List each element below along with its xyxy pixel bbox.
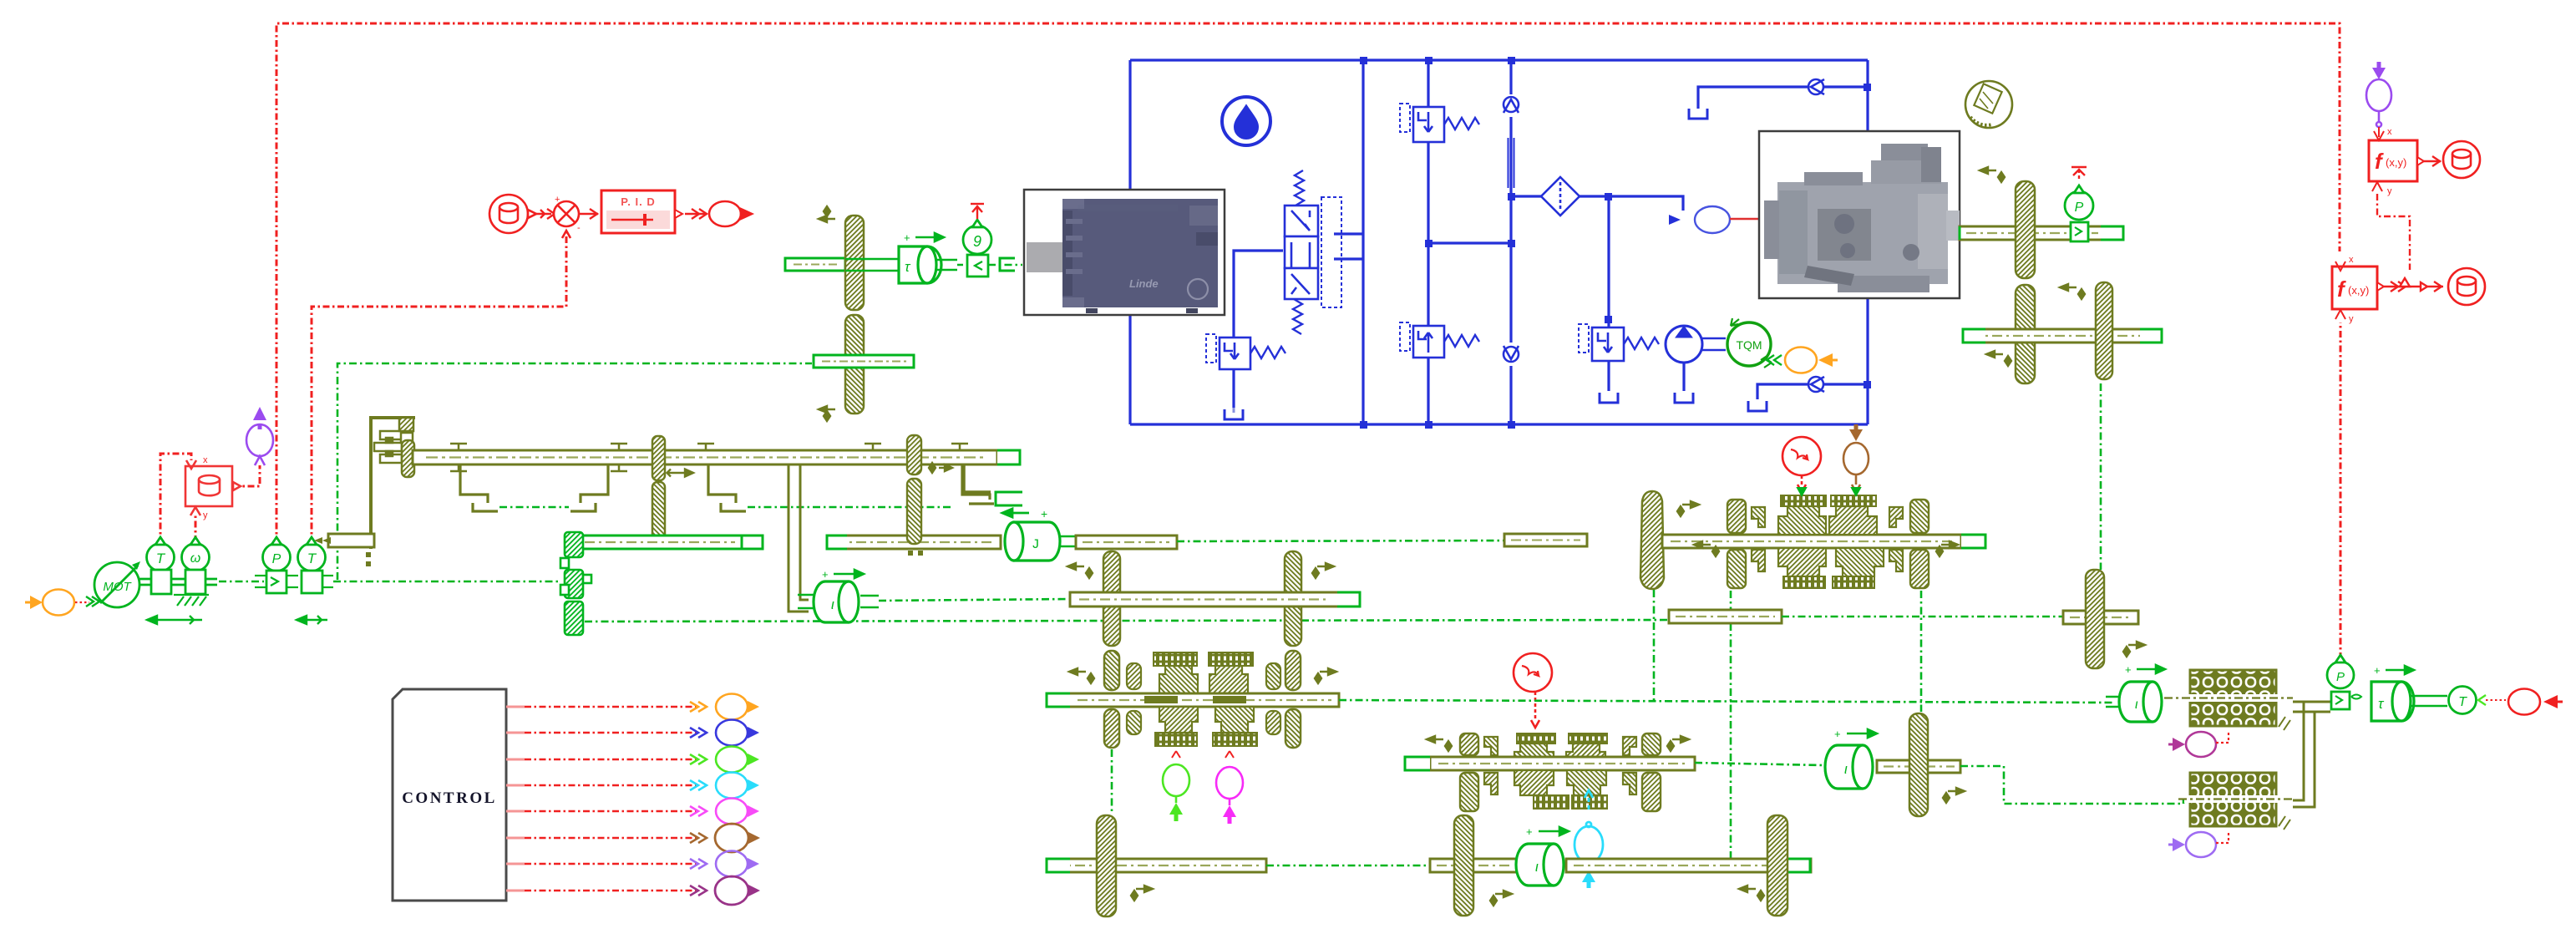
side hub left <box>1127 663 1141 689</box>
input drag gear on shaft <box>402 440 414 477</box>
wire: sensor shaft line to gearbox clutch pack <box>333 581 558 583</box>
B drum upper left <box>1778 506 1826 535</box>
shaft: planetary A main <box>1047 693 1339 707</box>
wire: control output 6 <box>506 833 707 843</box>
pressure sensor PR1 <box>2065 185 2093 241</box>
pipe: check column <box>1509 60 1512 94</box>
tank under CP1 <box>1675 393 1693 403</box>
relief valve RV2 top <box>1400 104 1479 142</box>
B outer gear upper-right <box>1910 500 1929 533</box>
wire: control output 5 <box>506 806 707 816</box>
svg-text:TQM: TQM <box>1736 338 1762 352</box>
check valve CV2 <box>1504 346 1519 362</box>
C drum upper left <box>1514 744 1554 767</box>
command oval dark magenta <box>2168 730 2229 757</box>
torque sensor block T1 <box>147 537 175 594</box>
shaft: free segment <box>1504 534 1587 546</box>
svg-text:T: T <box>307 551 317 566</box>
svg-text:ι: ι <box>1844 761 1848 777</box>
wire: B lower-left gear down-link <box>1730 591 1732 859</box>
command oval violet <box>2168 830 2229 857</box>
svg-text:+: + <box>1526 825 1533 838</box>
svg-text:(x,y): (x,y) <box>2386 156 2406 169</box>
C hub upper-right <box>1623 737 1636 755</box>
swash servo blue oval <box>1669 206 1730 233</box>
directional control valve DV1 <box>1285 170 1341 334</box>
pipe: pump drain <box>1682 363 1685 391</box>
B drum lower left <box>1778 548 1826 576</box>
wire: omega sensor to xy-store y input <box>195 515 197 542</box>
C outer gear lower-right <box>1642 773 1661 811</box>
svg-text:ω: ω <box>190 551 200 566</box>
B hub upper-right <box>1889 507 1903 527</box>
gear G-box lower <box>652 482 665 544</box>
check valve CV1 <box>1504 97 1519 113</box>
synchronizer pack detail <box>374 418 413 463</box>
output stub shaft of gearbox <box>314 534 374 547</box>
gear A-left low <box>1104 709 1119 748</box>
port oval P8 dark magenta <box>715 876 760 905</box>
sun/ring drum upper right <box>1209 666 1248 694</box>
prime mover MOT <box>94 561 140 607</box>
port oval P3 green <box>716 747 759 773</box>
arrows above I2 <box>1526 825 1569 838</box>
pressure sensor block P2L <box>255 537 298 593</box>
svg-text:P: P <box>272 552 281 566</box>
B combs top <box>1781 495 1826 506</box>
wire: PID to output tag <box>685 209 707 219</box>
mesh sparkle upper <box>819 206 835 222</box>
tau coupler TC1 <box>845 246 957 283</box>
gearbox main shaft <box>413 450 1020 464</box>
pipe: valve tap upper <box>1334 232 1363 235</box>
coupler links <box>2293 702 2330 807</box>
data store D1 (circle-cylinder) <box>489 195 536 233</box>
wire: sum to PID <box>579 209 598 219</box>
data store D3 <box>2443 141 2480 178</box>
pipe: boost relief drain <box>1232 369 1235 408</box>
C outer gear upper-left <box>1460 733 1478 755</box>
relief valve RV4 charge <box>1579 324 1659 361</box>
svg-text:ι: ι <box>831 596 834 612</box>
C hub lower-left <box>1484 773 1498 794</box>
wire: I1 output to range gear shaft <box>879 599 1072 601</box>
B hub lower-right <box>1889 550 1903 571</box>
control supervisor box <box>393 689 506 901</box>
oil drop icon <box>1222 97 1270 145</box>
orange tag oval near TQM <box>1785 348 1838 373</box>
dog clutch pair 1 <box>460 465 608 511</box>
tyre-damper block TD1 <box>2164 670 2293 730</box>
shaft: axle right <box>1566 859 1811 872</box>
svg-text:ι: ι <box>1535 859 1539 875</box>
wire: cone gear down-link <box>1653 590 1656 702</box>
gear axle2 <box>2086 570 2104 668</box>
gear R1 upper <box>2016 181 2035 278</box>
B hub upper-left <box>1752 507 1765 527</box>
wire: TQM to orange tag <box>1767 355 1782 365</box>
port oval P4 cyan <box>716 773 759 799</box>
svg-text:-: - <box>577 223 581 233</box>
charge pump CP1 <box>1666 326 1726 363</box>
gearbox housing bracket <box>371 418 415 549</box>
arrows above TAU2 <box>2374 664 2414 677</box>
shaft: bottom left axle <box>1047 859 1266 872</box>
svg-text:J: J <box>1032 537 1040 552</box>
wire: red stub servo to pump <box>1730 218 1760 221</box>
pipe: right border <box>1866 60 1869 131</box>
C drum upper right <box>1566 744 1605 767</box>
gear A-right mid <box>1285 651 1301 690</box>
torque meter TQM <box>1727 318 1772 368</box>
relief valve RV3 lower <box>1400 322 1479 358</box>
rock/soil icon <box>1965 81 2012 128</box>
mesh sparkle lower <box>819 406 835 421</box>
port oval P5 magenta <box>716 799 759 825</box>
gear A-right upper <box>1285 551 1301 646</box>
shaft: range input upper <box>1070 592 1360 607</box>
data store D4 <box>2448 268 2485 305</box>
wire: control output 4 <box>506 780 707 790</box>
svg-text:+: + <box>1041 507 1047 520</box>
wire: q sensor to Linde motor shaft <box>957 258 1022 271</box>
shaft: gearbox out to J <box>827 535 1001 549</box>
B outer gear lower-right <box>1910 550 1929 588</box>
junction dots <box>1360 57 1871 429</box>
ratio unit I2 <box>1516 844 1564 886</box>
pipe: relief column left top <box>1427 60 1429 107</box>
C outer gear upper-right <box>1642 733 1661 755</box>
svg-text:x: x <box>203 455 208 465</box>
carrier combs bottom <box>1155 733 1197 746</box>
cone gear <box>1640 491 1664 589</box>
gear T-upper <box>845 216 864 310</box>
purple oval source V1 <box>246 407 273 465</box>
tyre-damper block TD2 <box>2178 773 2293 830</box>
source oval orange engine command <box>25 590 74 616</box>
svg-text:+: + <box>2125 663 2132 676</box>
gear A-right low <box>1285 709 1301 748</box>
pipe: top right tank line <box>1698 87 1808 109</box>
mesh sparkles planetary A <box>1067 563 1093 578</box>
arrows above I4 <box>2125 663 2165 676</box>
shaft: axle2 right <box>2063 611 2138 624</box>
pinion gear on J shaft <box>907 435 921 475</box>
f(x,y) block F2 <box>2332 255 2384 324</box>
purple oval source V2 top right <box>2366 62 2391 127</box>
boost relief valve RV1 <box>1206 334 1285 369</box>
svg-text:x: x <box>2349 255 2354 265</box>
load tag red oval <box>2508 689 2563 715</box>
wire: D1 to sum <box>536 209 555 219</box>
svg-text:Linde: Linde <box>1129 277 1159 290</box>
C hub lower-right <box>1623 773 1636 794</box>
svg-text:ι: ι <box>2135 698 2138 712</box>
pipe: bottom right tank line <box>1757 384 1808 399</box>
shaft: under planetary B <box>1669 610 1782 623</box>
displacement arrows under shaft <box>147 616 327 624</box>
wire: control output 7 <box>506 859 707 869</box>
tank top right <box>1689 109 1707 119</box>
wire: load tag to TS2 <box>2478 695 2506 705</box>
wire: feedback from T sensor to sum junction <box>312 229 566 544</box>
port oval P2 blue <box>716 720 759 746</box>
pipe: valve left port to boost relief <box>1234 251 1283 338</box>
wire: axle2 link <box>1782 616 2082 618</box>
shaft: transfer <box>1877 760 1960 773</box>
B hub lower-left <box>1752 550 1765 571</box>
shaft: planetary C main <box>1405 757 1695 770</box>
wire: brown oval feed from bottom header <box>1855 424 1858 429</box>
svg-text:+: + <box>2374 664 2381 677</box>
wheel gear bottom-right <box>1767 815 1787 916</box>
svg-text:CONTROL: CONTROL <box>402 789 497 807</box>
gear A-left upper <box>1103 551 1120 646</box>
gear R2 <box>2096 282 2112 379</box>
pipe: filter branch <box>1511 195 1542 197</box>
svg-text:+: + <box>1834 728 1841 740</box>
wire: F2 y-feed riser to F1 <box>2377 194 2410 270</box>
svg-text:x: x <box>2387 127 2392 137</box>
clutch command green oval <box>1163 751 1189 821</box>
torque sensor TS2 <box>2449 687 2477 714</box>
port oval P1 orange <box>716 694 759 720</box>
input shaft to tau <box>785 258 845 271</box>
shift arrows pair1 <box>667 469 694 477</box>
svg-text:T: T <box>156 551 166 566</box>
sun/ring drum lower left <box>1159 707 1198 733</box>
planet carrier combs top <box>1154 652 1197 666</box>
sun/ring drum upper left <box>1159 666 1198 694</box>
shaft: planetary B main <box>1662 535 1985 548</box>
B combs bottom <box>1783 576 1825 588</box>
tank under RV4 <box>1600 393 1618 403</box>
speed source red sine <box>1782 437 1821 492</box>
torque meter sensor q <box>963 220 991 277</box>
wire: clutch link 2 <box>748 506 952 508</box>
ratio unit I3 <box>1825 745 1873 789</box>
ramp source brown oval <box>1843 424 1869 492</box>
svg-text:P: P <box>2336 670 2345 684</box>
wire: V2 to F1 x input <box>2378 127 2380 131</box>
tank under RV1 <box>1225 408 1243 419</box>
wire: control output 2 <box>506 728 707 738</box>
shaft: lower right train <box>1963 329 2162 343</box>
bearing 2 <box>611 444 627 471</box>
wire: top long signal loop from P sensor left to f(x,y) right <box>276 23 2340 544</box>
C hub upper-left <box>1484 737 1498 755</box>
pipe: valve tap lower <box>1334 257 1363 260</box>
ratio unit I4 <box>2106 682 2162 722</box>
wire: green riser and engine speed line to input gear <box>337 363 812 580</box>
pipe: charge branch to blue oval <box>1609 196 1683 211</box>
svg-text:y: y <box>2387 186 2392 196</box>
wire: transfer to rear damper 2 <box>1960 766 2190 804</box>
tank bottom right <box>1748 401 1767 411</box>
clutch command magenta oval <box>1216 751 1243 824</box>
gear A-left mid <box>1104 651 1119 690</box>
port oval P7 violet <box>716 851 759 877</box>
lower gearbox shaft (bright) <box>573 535 763 549</box>
gear T-lower <box>845 315 864 414</box>
wire: control output 3 <box>506 754 707 764</box>
side hub lower left <box>1127 711 1141 734</box>
arrows above TC1 <box>904 231 944 244</box>
synchro actuator stack (bright green) <box>560 532 591 635</box>
shaft: axle mid <box>1430 859 1517 872</box>
wire: axle link <box>1266 865 1430 867</box>
C combs top <box>1517 733 1555 744</box>
dog clutch pair 2 <box>708 465 994 511</box>
f(x,y) block F1 <box>2369 127 2424 196</box>
B drum lower right <box>1836 548 1884 576</box>
svg-text:9: 9 <box>973 233 981 250</box>
check valve CV3 <box>1808 79 1824 94</box>
sum junction S1 <box>554 195 581 238</box>
pipe: relief3 drain <box>1607 361 1610 391</box>
pipe: left border <box>1128 60 1131 200</box>
inertia J1 <box>1005 522 1076 561</box>
wheel gear mid-left <box>1454 815 1473 916</box>
wire: clutch link 1 <box>499 506 569 508</box>
lower input stub shaft <box>814 355 914 368</box>
wire: F1 output to data store D3 <box>2424 156 2441 166</box>
gear G-box upper <box>652 436 665 480</box>
wire: C shaft to transfer ratio <box>1695 763 1824 765</box>
pipe: bottom header <box>1130 423 1868 425</box>
C drum lower right <box>1567 770 1606 795</box>
output tag oval O1 <box>709 201 752 226</box>
svg-text:(x,y): (x,y) <box>2348 284 2369 297</box>
wire: orange oval to MOT <box>75 596 99 607</box>
pressure sensor PR2 <box>2327 655 2361 709</box>
C drum lower left <box>1514 770 1554 795</box>
bracket: shaft end flange <box>964 465 991 492</box>
shaft: pump out <box>1960 226 2123 240</box>
speed source red sine 2 <box>1514 653 1552 728</box>
red setting flag above q <box>971 204 984 219</box>
arrows above J1 <box>1002 507 1047 520</box>
wire: right P sensor up to f2 y input <box>2340 322 2342 659</box>
svg-text:+: + <box>904 231 910 244</box>
ratio unit I1 (iota cylinder) <box>798 581 879 622</box>
wire: A left gear to bottom gear <box>1111 749 1113 814</box>
svg-text:+: + <box>822 568 829 581</box>
sun/ring drum lower right <box>1215 707 1254 733</box>
pipe: cross link <box>1428 241 1511 244</box>
bearing 4 <box>865 444 881 450</box>
svg-text:y: y <box>2349 314 2354 324</box>
arrows above I1 <box>822 568 864 581</box>
shaft: J to range gearbox <box>1076 535 1177 549</box>
svg-text:+: + <box>555 195 560 205</box>
wire: B lower-right gear down-link <box>1920 591 1923 712</box>
wire: J line to free shaft <box>1177 541 1504 541</box>
slip command cyan oval <box>1575 790 1603 888</box>
wire: F2 output line with tee to D4 <box>2384 278 2443 292</box>
red setting flag above PR1 <box>2071 167 2087 181</box>
gear R1 lower <box>2016 285 2035 383</box>
pipe: center column <box>1362 60 1364 424</box>
torque sensor block T2L <box>298 537 334 593</box>
check valve CV4 <box>1808 377 1824 392</box>
filter F1 <box>1541 177 1580 216</box>
shaft: engine output with sensors <box>139 579 217 585</box>
speed sensor block W1 <box>182 537 210 594</box>
shift linkage pipe to ratio unit <box>789 465 809 612</box>
xy data store box D2 <box>185 455 241 520</box>
wire: green speed line into gearbox sensors <box>219 581 264 583</box>
gear transfer <box>1909 713 1928 816</box>
ground under engine shaft <box>174 595 209 606</box>
wire: planetary A output to rear coupler <box>1339 700 2115 703</box>
wheel gear bottom-left <box>1097 815 1116 916</box>
svg-text:y: y <box>203 510 208 520</box>
B outer gear lower-left <box>1727 550 1746 588</box>
torsion coupler TAU2 <box>2371 682 2447 721</box>
side hub lower right <box>1266 711 1280 734</box>
wire: stack lower output <box>585 620 1667 622</box>
port oval P6 brown <box>715 824 760 852</box>
wire: xy-store output to purple oval <box>233 465 260 486</box>
wire: control output 1 <box>506 702 707 712</box>
arrows above I3 <box>1834 728 1877 740</box>
wire: R2 gear down to axle2 gear <box>2100 383 2102 570</box>
B drum upper right <box>1829 506 1877 535</box>
wire: control output 8 <box>506 886 707 896</box>
svg-text:P: P <box>2075 200 2084 215</box>
wire: T sensor to xy-store x input <box>160 454 191 544</box>
svg-text:T: T <box>2458 695 2467 709</box>
wire: source arrows into planetary B carrier <box>1798 488 1860 495</box>
side hub right <box>1266 663 1280 689</box>
bearing 1 <box>450 444 467 471</box>
ghost link dots <box>366 552 371 566</box>
C rack bottom <box>1534 795 1569 809</box>
svg-text:P. I. D: P. I. D <box>621 195 655 208</box>
pipe: top header <box>1130 58 1868 61</box>
controller PID <box>601 190 682 233</box>
bearing 3 <box>697 444 714 450</box>
C outer gear lower-left <box>1460 773 1478 811</box>
B outer gear upper-left <box>1727 500 1746 533</box>
